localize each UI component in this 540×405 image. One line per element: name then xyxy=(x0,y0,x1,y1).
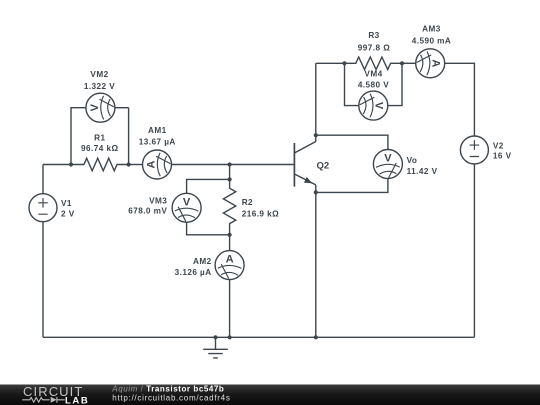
wire xyxy=(42,222,44,338)
svg-text:216.9 kΩ: 216.9 kΩ xyxy=(242,210,279,219)
svg-text:V1: V1 xyxy=(61,199,72,208)
svg-text:4.590 mA: 4.590 mA xyxy=(412,36,452,45)
svg-text:11.42 V: 11.42 V xyxy=(407,167,438,176)
svg-text:16 V: 16 V xyxy=(493,152,512,161)
node AM2 bottom rail xyxy=(228,335,232,339)
wire VM4 left branch xyxy=(345,63,359,105)
svg-text:V: V xyxy=(373,101,385,109)
svg-text:A: A xyxy=(146,160,158,168)
wire emitter down xyxy=(315,185,317,337)
svg-text:LAB: LAB xyxy=(65,395,89,405)
svg-text:2 V: 2 V xyxy=(61,210,75,219)
voltmeter VM4 xyxy=(359,91,388,120)
svg-text:R1: R1 xyxy=(94,134,105,143)
svg-text:VM2: VM2 xyxy=(90,70,108,79)
node VM3 tee xyxy=(228,177,232,181)
node emitter xyxy=(314,190,318,194)
svg-text:AM1: AM1 xyxy=(148,126,167,135)
wire xyxy=(172,164,294,166)
svg-text:http://circuitlab.com/cadfr4s: http://circuitlab.com/cadfr4s xyxy=(112,393,230,402)
svg-text:3.126 µA: 3.126 µA xyxy=(175,268,212,277)
wire xyxy=(43,164,71,166)
svg-text:V2: V2 xyxy=(493,141,504,150)
svg-text:Vo: Vo xyxy=(407,156,418,165)
resistor R3 xyxy=(345,57,403,70)
svg-text:AM3: AM3 xyxy=(422,25,441,34)
svg-text:AM2: AM2 xyxy=(193,257,212,266)
svg-text:678.0 mV: 678.0 mV xyxy=(128,207,167,216)
voltage source V2 xyxy=(460,136,488,164)
svg-text:V: V xyxy=(384,153,392,165)
node R3 right xyxy=(400,61,404,65)
wire collector up xyxy=(315,63,317,141)
svg-text:A: A xyxy=(430,59,442,67)
svg-text:VM3: VM3 xyxy=(149,197,167,206)
svg-text:96.74 kΩ: 96.74 kΩ xyxy=(81,144,118,153)
svg-text:4.580 V: 4.580 V xyxy=(358,80,389,89)
wire xyxy=(229,165,231,180)
svg-text:V: V xyxy=(89,103,101,111)
svg-text:997.8 Ω: 997.8 Ω xyxy=(358,43,390,52)
transistor Q2 xyxy=(294,142,315,187)
wire emitter to Vo xyxy=(316,179,388,193)
voltmeter VM2 xyxy=(86,93,115,122)
ground xyxy=(203,337,228,358)
node R1 right xyxy=(127,162,131,166)
svg-text:R2: R2 xyxy=(242,198,253,207)
wire top rail xyxy=(316,62,345,64)
node ground junction xyxy=(213,335,217,339)
svg-text:Q2: Q2 xyxy=(317,161,330,172)
node emitter rail xyxy=(314,335,318,339)
wire xyxy=(473,164,475,337)
wire VM3 top branch xyxy=(187,179,230,193)
voltmeter Vo xyxy=(373,150,402,179)
logo diode xyxy=(51,397,57,403)
node R3 left xyxy=(342,61,346,65)
wire xyxy=(229,280,231,338)
wire bottom rail xyxy=(43,336,474,338)
node R2 bottom xyxy=(228,233,232,237)
node collector xyxy=(314,133,318,137)
wire xyxy=(129,164,143,166)
logo squiggle resistor xyxy=(22,398,49,403)
svg-text:1.322 V: 1.322 V xyxy=(84,82,115,91)
wire xyxy=(42,165,44,194)
ammeter AM2 xyxy=(215,251,244,280)
node R2 top xyxy=(228,162,232,166)
voltmeter VM3 xyxy=(172,193,201,222)
svg-text:A: A xyxy=(226,254,234,266)
svg-text:V: V xyxy=(182,196,190,208)
wire xyxy=(402,62,416,64)
voltage source V1 xyxy=(29,194,57,222)
wire xyxy=(128,108,130,165)
svg-text:R3: R3 xyxy=(368,31,379,40)
resistor R2 xyxy=(223,179,235,234)
wire collector to Vo xyxy=(316,135,388,149)
wire VM2 right branch xyxy=(115,107,129,109)
ammeter AM3 xyxy=(416,49,445,78)
svg-text:13.67 µA: 13.67 µA xyxy=(139,137,176,146)
svg-text:Aquim / Transistor bc547b: Aquim / Transistor bc547b xyxy=(111,384,224,393)
ammeter AM1 xyxy=(143,150,172,179)
svg-text:VM4: VM4 xyxy=(364,70,382,79)
node R1 left xyxy=(69,162,73,166)
wire VM2 left branch xyxy=(71,108,86,165)
wire VM3 bottom branch xyxy=(187,222,230,235)
wire xyxy=(445,63,475,136)
resistor R1 xyxy=(71,158,129,171)
wire xyxy=(229,235,231,251)
wire VM4 right branch xyxy=(388,63,402,105)
